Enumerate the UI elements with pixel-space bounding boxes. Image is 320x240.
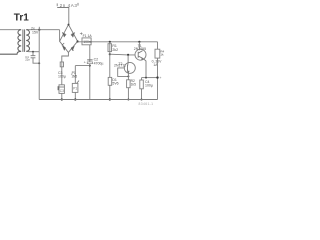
node rail dot A bbox=[61, 98, 63, 100]
node main rail dot T1 bbox=[138, 41, 140, 43]
diode D upper-left bbox=[63, 33, 67, 37]
wire secondary top bbox=[28, 29, 59, 31]
wire P1 to rail bbox=[74, 92, 76, 99]
svg-text:1k: 1k bbox=[160, 53, 164, 57]
transformer core bbox=[23, 29, 25, 52]
diode D upper-right bbox=[71, 33, 75, 37]
wire C1 top lead bbox=[32, 52, 34, 56]
wire zener to rail bbox=[109, 85, 111, 99]
wire right edge down bbox=[157, 42, 159, 100]
node rail dot zener bbox=[109, 98, 111, 100]
transistor T1 bbox=[135, 49, 146, 60]
resistor R2 box under T2 bbox=[127, 80, 131, 88]
bridge rectifier diamond bbox=[60, 25, 78, 53]
transistor T2 bbox=[124, 62, 135, 73]
wire T2 collector bbox=[127, 55, 129, 63]
svg-text:100µ: 100µ bbox=[145, 83, 153, 87]
wire C3 to rail bbox=[61, 93, 63, 99]
svg-text:5V6: 5V6 bbox=[112, 82, 118, 86]
svg-text:2k5: 2k5 bbox=[72, 74, 78, 78]
node T1 emitter junction dot bbox=[145, 77, 147, 79]
svg-text:2x: 2x bbox=[31, 26, 35, 30]
resistor R1 box bbox=[108, 44, 112, 52]
wire main DC rail bbox=[78, 41, 158, 43]
node rail dot B bbox=[74, 98, 76, 100]
svg-text:100m: 100m bbox=[83, 40, 92, 44]
node R1 bottom dot bbox=[109, 53, 111, 55]
node secondary tap dot bbox=[32, 51, 34, 53]
node bridge top dot bbox=[68, 24, 70, 26]
node T1 base / T2 collector dot bbox=[127, 54, 129, 56]
wire T2 emitter down bbox=[127, 73, 129, 80]
svg-text:83461-1: 83461-1 bbox=[139, 102, 154, 106]
wire leader to bridge bbox=[57, 8, 69, 25]
wire secondary bottom bbox=[28, 51, 39, 53]
wire T1 collector bbox=[138, 42, 140, 50]
wire secondary top feed into bridge bbox=[59, 30, 61, 42]
capacitor C3 box bbox=[59, 85, 64, 94]
node rail dot R2 bbox=[127, 99, 129, 101]
node rail dot R3 bbox=[141, 99, 143, 101]
svg-text:22n: 22n bbox=[25, 58, 30, 62]
node C2 bottom junction bbox=[89, 65, 91, 67]
wire AC2 from bridge bottom bbox=[62, 52, 69, 62]
node junction dot x39 y63 bbox=[38, 62, 40, 64]
diode D lower-right bbox=[71, 47, 74, 51]
wire bottom rail bbox=[39, 99, 157, 101]
transformer Tr1 secondary winding bbox=[26, 30, 29, 52]
fuse F1 box on main rail bbox=[82, 38, 91, 45]
svg-text:15V: 15V bbox=[32, 31, 39, 35]
diode D lower-left bbox=[62, 43, 66, 50]
svg-text:2k2: 2k2 bbox=[112, 48, 118, 52]
wire C2 branch bbox=[89, 45, 91, 100]
wire down from small box bbox=[61, 67, 63, 85]
wire P1 branch bbox=[75, 66, 90, 84]
svg-text:Tr1: Tr1 bbox=[14, 13, 29, 24]
wire R2 to rail bbox=[127, 88, 129, 100]
svg-text:F1 1A: F1 1A bbox=[83, 34, 93, 38]
wire T2 base bbox=[118, 68, 129, 77]
capacitor C2 plates bbox=[87, 60, 92, 63]
wire C1 bottom lead bbox=[33, 58, 39, 63]
node main rail dot R1 bbox=[109, 41, 111, 43]
wire R1 to zener bbox=[109, 42, 111, 78]
svg-text:4700µ: 4700µ bbox=[94, 62, 104, 66]
node secondary top junction bbox=[38, 29, 40, 31]
wire T1 emitter bbox=[143, 59, 146, 78]
capacitor C1 plates bbox=[31, 56, 36, 58]
svg-text:P1: P1 bbox=[73, 87, 77, 91]
node T2 emitter dot bbox=[127, 75, 129, 77]
node output junction dot bbox=[156, 76, 158, 78]
node bridge right dot bbox=[77, 40, 79, 42]
resistor R4 box right edge bbox=[155, 49, 160, 58]
potentiometer P1 box bbox=[72, 83, 78, 92]
tick left of label bbox=[56, 3, 58, 6]
svg-text:100µ: 100µ bbox=[58, 74, 66, 78]
svg-text:C3: C3 bbox=[60, 89, 64, 93]
wire primary top bbox=[0, 29, 19, 31]
zener D1 box bbox=[108, 77, 112, 85]
resistor R3 box output bbox=[140, 80, 144, 89]
wire output level bbox=[142, 77, 158, 79]
tick right of label bbox=[77, 3, 79, 6]
svg-text:1k5: 1k5 bbox=[131, 82, 136, 86]
transformer Tr1 primary winding bbox=[0, 30, 21, 55]
wire base node to T1 bbox=[110, 53, 135, 56]
wire vertical secondary return bbox=[38, 30, 40, 100]
fuse box small on AC2 branch bbox=[60, 62, 63, 67]
